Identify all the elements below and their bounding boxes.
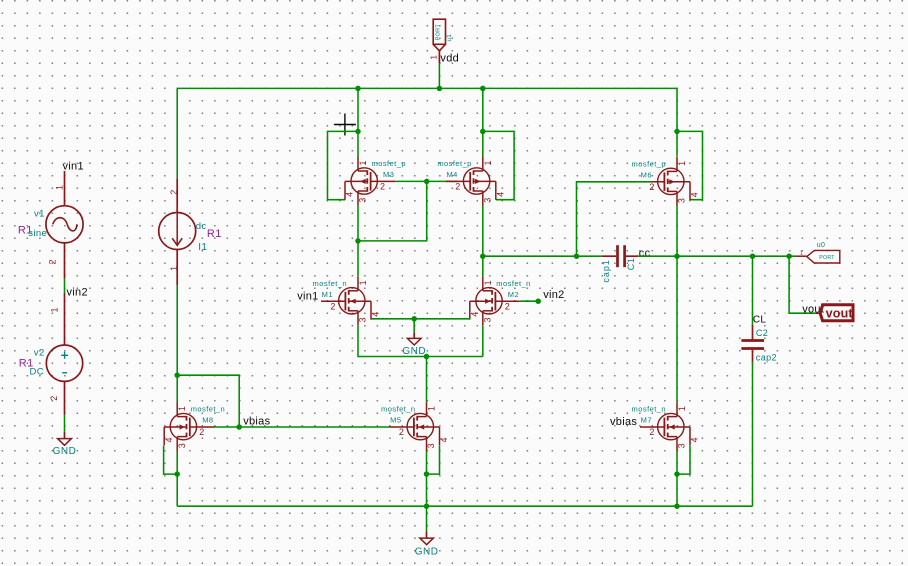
- svg-text:GND: GND: [402, 346, 426, 357]
- svg-text:3: 3: [358, 198, 368, 203]
- wire M2 source: [482, 325, 484, 356]
- svg-text:2: 2: [47, 259, 57, 264]
- svg-text:u1: u1: [446, 34, 453, 42]
- svg-text:1: 1: [54, 185, 64, 190]
- junction: [355, 86, 361, 92]
- junction: [437, 86, 443, 92]
- svg-text:1: 1: [50, 307, 60, 312]
- wire: [358, 181, 427, 241]
- svg-text:M8: M8: [202, 416, 213, 425]
- wire output column: [676, 206, 678, 403]
- wire vbias rail: [239, 426, 389, 428]
- vdd rail wire: [177, 87, 677, 89]
- svg-text:mosfet_p: mosfet_p: [372, 159, 406, 168]
- wire: [482, 88, 484, 156]
- svg-text:vdd: vdd: [440, 52, 459, 64]
- svg-text:2: 2: [649, 427, 654, 437]
- svg-text:1: 1: [677, 161, 687, 166]
- svg-text:GND: GND: [53, 446, 77, 457]
- wire: [357, 206, 359, 277]
- svg-text:mosfet_n: mosfet_n: [496, 279, 530, 288]
- svg-text:2: 2: [169, 190, 179, 195]
- svg-text:1: 1: [800, 251, 803, 257]
- wire tail: [426, 357, 428, 403]
- wire: [64, 171, 66, 206]
- wire M7 bulk tie: [677, 446, 690, 475]
- svg-text:mosfet_n: mosfet_n: [191, 405, 225, 414]
- svg-text:GND: GND: [415, 547, 439, 558]
- svg-text:2: 2: [199, 427, 204, 437]
- transistor M8: [164, 402, 214, 451]
- svg-text:v1: v1: [34, 209, 45, 220]
- voltage source V2: [46, 345, 82, 381]
- svg-text:2: 2: [330, 301, 335, 311]
- svg-text:v2: v2: [34, 347, 45, 358]
- origin crosshair: [334, 114, 356, 136]
- ground under V2: [53, 432, 77, 458]
- wire M4 bulk loop: [483, 131, 514, 199]
- wire vdd stub: [438, 63, 440, 88]
- junction: [174, 471, 180, 477]
- junction: [480, 253, 486, 259]
- wire M1 source: [358, 325, 483, 356]
- svg-text:PORT: PORT: [435, 24, 441, 41]
- wire M8 bulk tie: [164, 446, 178, 475]
- svg-text:2: 2: [649, 182, 654, 192]
- wire: [176, 178, 178, 212]
- svg-text:1: 1: [430, 54, 439, 59]
- transistor M6: [640, 157, 690, 206]
- wire M8 source: [176, 451, 178, 506]
- svg-text:C1: C1: [626, 257, 636, 270]
- ground bottom: [415, 506, 439, 557]
- junction: [786, 253, 792, 259]
- svg-text:4: 4: [496, 192, 506, 197]
- svg-text:R1: R1: [207, 228, 222, 240]
- svg-text:mosfet_n: mosfet_n: [381, 405, 415, 414]
- svg-text:2: 2: [505, 301, 510, 311]
- wire M3 bulk loop: [328, 131, 359, 199]
- junction: [236, 424, 242, 430]
- transistor M2: [470, 276, 520, 325]
- junction: [574, 253, 580, 259]
- wire output net: [637, 255, 796, 257]
- svg-text:3: 3: [426, 443, 436, 448]
- wire vout branch: [789, 256, 818, 313]
- wire: [64, 381, 66, 414]
- svg-text:M7: M7: [641, 416, 652, 425]
- svg-text:mosfet_n: mosfet_n: [632, 405, 666, 414]
- wire end dot: [535, 298, 541, 304]
- svg-text:3: 3: [483, 317, 493, 322]
- wire M5 bulk tie: [427, 446, 440, 475]
- svg-text:4: 4: [690, 192, 700, 197]
- transistor M1: [321, 276, 371, 325]
- svg-text:CL: CL: [753, 315, 767, 326]
- svg-text:4: 4: [371, 312, 381, 317]
- svg-text:C2: C2: [756, 328, 768, 338]
- svg-text:4: 4: [345, 192, 355, 197]
- svg-text:cc: cc: [639, 247, 651, 259]
- wire: [64, 415, 66, 432]
- wire: [752, 362, 754, 506]
- svg-text:vin1: vin1: [297, 290, 318, 302]
- svg-text:1: 1: [169, 266, 179, 271]
- svg-text:cap2: cap2: [756, 352, 777, 362]
- junction: [424, 503, 430, 509]
- transistor M3: [345, 157, 395, 206]
- junction: [674, 253, 680, 259]
- svg-text:2: 2: [399, 427, 404, 437]
- svg-text:M5: M5: [390, 416, 401, 425]
- voltage source V1: [46, 206, 83, 243]
- wire: [176, 250, 178, 286]
- wire gate tie to M4: [427, 180, 458, 182]
- wire gate tie: [395, 180, 427, 182]
- port symbol u0: [796, 250, 840, 263]
- junction: [674, 129, 680, 135]
- capacitor C2: [741, 325, 764, 362]
- svg-text:2: 2: [455, 182, 460, 192]
- svg-text:vbias: vbias: [243, 415, 270, 427]
- svg-text:1: 1: [483, 160, 493, 165]
- wire M7 source: [676, 451, 678, 506]
- svg-text:1: 1: [358, 160, 368, 165]
- svg-text:3: 3: [677, 198, 687, 203]
- svg-text:3: 3: [358, 317, 368, 322]
- svg-text:cap1: cap1: [601, 259, 611, 283]
- transistor M7: [640, 402, 690, 451]
- ground mid: [402, 319, 426, 357]
- svg-text:3: 3: [177, 443, 187, 448]
- wire: [676, 88, 678, 156]
- svg-text:M1: M1: [322, 290, 333, 299]
- svg-text:M6: M6: [641, 170, 652, 179]
- wire: [357, 88, 359, 156]
- svg-text:vin1: vin1: [63, 160, 84, 172]
- svg-text:M4: M4: [446, 170, 457, 179]
- svg-text:vin2: vin2: [67, 287, 88, 299]
- svg-text:4: 4: [439, 437, 449, 442]
- junction: [424, 471, 430, 477]
- svg-text:mosfet_n: mosfet_n: [313, 279, 347, 288]
- svg-text:M2: M2: [508, 290, 519, 299]
- svg-text:M3: M3: [383, 170, 394, 179]
- svg-text:I1: I1: [198, 242, 207, 253]
- svg-text:1: 1: [483, 280, 493, 285]
- port symbol vout: [816, 305, 853, 321]
- junction: [674, 471, 680, 477]
- gnd rail wire: [177, 505, 752, 507]
- transistor M5: [390, 402, 440, 451]
- junction: [411, 316, 417, 322]
- junction: [174, 372, 180, 378]
- current source I1: [159, 213, 196, 250]
- wire M6 gate: [577, 182, 653, 256]
- junction: [750, 253, 756, 259]
- svg-text:vout: vout: [826, 306, 854, 320]
- svg-text:1: 1: [177, 406, 187, 411]
- svg-text:dc: dc: [196, 221, 207, 232]
- svg-text:sine: sine: [28, 228, 47, 239]
- junction: [424, 354, 430, 360]
- port symbol vdd: [430, 19, 446, 63]
- junction: [355, 129, 361, 135]
- svg-text:vbias: vbias: [610, 416, 637, 428]
- wire M5 source: [426, 451, 428, 506]
- junction: [480, 129, 486, 135]
- junction: [480, 86, 486, 92]
- svg-text:DC: DC: [30, 366, 45, 377]
- svg-text:2: 2: [380, 182, 385, 192]
- svg-text:u0: u0: [817, 242, 825, 249]
- svg-text:4: 4: [164, 437, 174, 442]
- wire: [176, 285, 178, 402]
- svg-text:1: 1: [677, 406, 687, 411]
- junction: [424, 179, 430, 185]
- wire M8 gate loop: [177, 375, 239, 427]
- wire: [64, 243, 66, 279]
- wire stage1 out: [483, 255, 603, 257]
- wire M6 bulk loop: [677, 131, 703, 199]
- svg-text:1: 1: [358, 280, 368, 285]
- svg-text:2: 2: [49, 396, 59, 401]
- transistor M4: [446, 157, 496, 206]
- svg-text:3: 3: [483, 198, 493, 203]
- svg-text:mosfet_p: mosfet_p: [437, 159, 471, 168]
- junction: [674, 503, 680, 509]
- wire bulk row: [371, 318, 470, 320]
- svg-text:vin2: vin2: [543, 289, 564, 301]
- capacitor C1: [603, 245, 640, 267]
- wire: [752, 256, 754, 325]
- junction: [355, 238, 361, 244]
- svg-text:mosfet_p: mosfet_p: [632, 159, 666, 168]
- svg-text:4: 4: [470, 312, 480, 317]
- svg-text:1: 1: [427, 406, 437, 411]
- wire: [64, 293, 66, 346]
- wire: [176, 88, 178, 178]
- svg-text:3: 3: [677, 443, 687, 448]
- svg-text:4: 4: [690, 437, 700, 442]
- wire: [482, 206, 484, 277]
- wire M2 gate: [520, 300, 537, 302]
- svg-text:PORT: PORT: [819, 255, 835, 261]
- wire M8 gate: [214, 426, 240, 428]
- wire vin2: [64, 279, 66, 293]
